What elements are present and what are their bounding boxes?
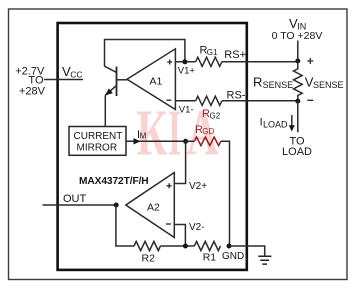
svg-text:LOAD: LOAD [282, 146, 312, 158]
svg-text:GND: GND [222, 251, 244, 262]
label VCC [62, 64, 82, 80]
svg-text:MAX4372T/F/H: MAX4372T/F/H [79, 176, 149, 187]
node OUT junction [114, 203, 119, 208]
svg-text:0 TO +28V: 0 TO +28V [272, 30, 323, 42]
resistor RGD [194, 124, 220, 146]
svg-text:LOAD: LOAD [263, 119, 288, 129]
label VSENSE [305, 75, 344, 91]
svg-text:MIRROR: MIRROR [77, 143, 118, 154]
svg-text:V1+: V1+ [178, 66, 196, 77]
svg-text:M: M [140, 131, 147, 140]
wire R2 to node [161, 245, 195, 247]
wire OUT down to R2 [116, 205, 134, 246]
ground [258, 256, 271, 264]
label TO LOAD [282, 136, 312, 159]
wire RS- [222, 90, 298, 102]
svg-text:G2: G2 [210, 111, 221, 120]
svg-text:R: R [253, 75, 262, 90]
svg-text:A2: A2 [147, 202, 160, 214]
label MAX4372T/F/H [79, 176, 149, 187]
svg-text:V2+: V2+ [189, 181, 207, 192]
current ILOAD arrow [260, 115, 295, 131]
IC box MAX4372 [58, 23, 247, 270]
svg-text:RS-: RS- [227, 90, 246, 102]
svg-text:R2: R2 [142, 252, 156, 264]
svg-text:RS+: RS+ [224, 49, 246, 61]
op-amp A2 [126, 173, 175, 238]
svg-text:+28V: +28V [19, 85, 46, 97]
wire to load [297, 101, 299, 132]
wire IM with arrow [126, 129, 183, 144]
node plus [295, 58, 313, 64]
transistor Q1 [105, 66, 128, 96]
node V2- junction [183, 244, 188, 249]
wire emitter to current mirror [104, 95, 106, 126]
resistor R1 [194, 241, 220, 263]
svg-text:V1-: V1- [179, 104, 194, 115]
wire collector to node V1+ [105, 40, 185, 67]
node V2+/RGD junction [183, 139, 188, 144]
node RGD junction [227, 244, 232, 249]
resistor R2 [134, 241, 160, 264]
node V1+ junction [182, 59, 187, 64]
wire node to RGD [186, 140, 195, 142]
label V1+ [178, 66, 196, 77]
svg-text:G1: G1 [207, 48, 218, 57]
svg-text:SENSE: SENSE [313, 80, 344, 90]
svg-text:CC: CC [70, 70, 82, 80]
wire VIN down [297, 41, 299, 62]
label VIN [272, 16, 323, 42]
node minus [295, 99, 313, 104]
wire VCC pin [44, 79, 83, 81]
resistor RG1 [196, 45, 222, 67]
svg-text:R1: R1 [203, 252, 217, 264]
wire OUT [43, 193, 116, 205]
label +2.7V TO +28V [15, 65, 45, 97]
op-amp A1 [127, 49, 175, 110]
resistor RG2 [196, 96, 222, 120]
svg-text:OUT: OUT [63, 193, 87, 205]
wire V1- to RG2 [175, 101, 195, 116]
resistor RSENSE [253, 61, 302, 101]
wire GND [222, 246, 265, 262]
wire RS+ [222, 49, 298, 62]
watermark KIA [137, 98, 219, 170]
svg-text:A1: A1 [150, 76, 163, 88]
wire V1+ to RG1 [175, 61, 195, 63]
svg-text:GD: GD [202, 127, 214, 136]
current mirror U1 [69, 127, 126, 156]
svg-text:V2-: V2- [189, 222, 205, 233]
wire V2- [174, 222, 204, 246]
svg-text:SENSE: SENSE [263, 80, 294, 90]
wire V2+ [174, 141, 207, 192]
wire RGD down to R1 node [221, 141, 230, 246]
svg-text:CURRENT: CURRENT [74, 131, 123, 142]
